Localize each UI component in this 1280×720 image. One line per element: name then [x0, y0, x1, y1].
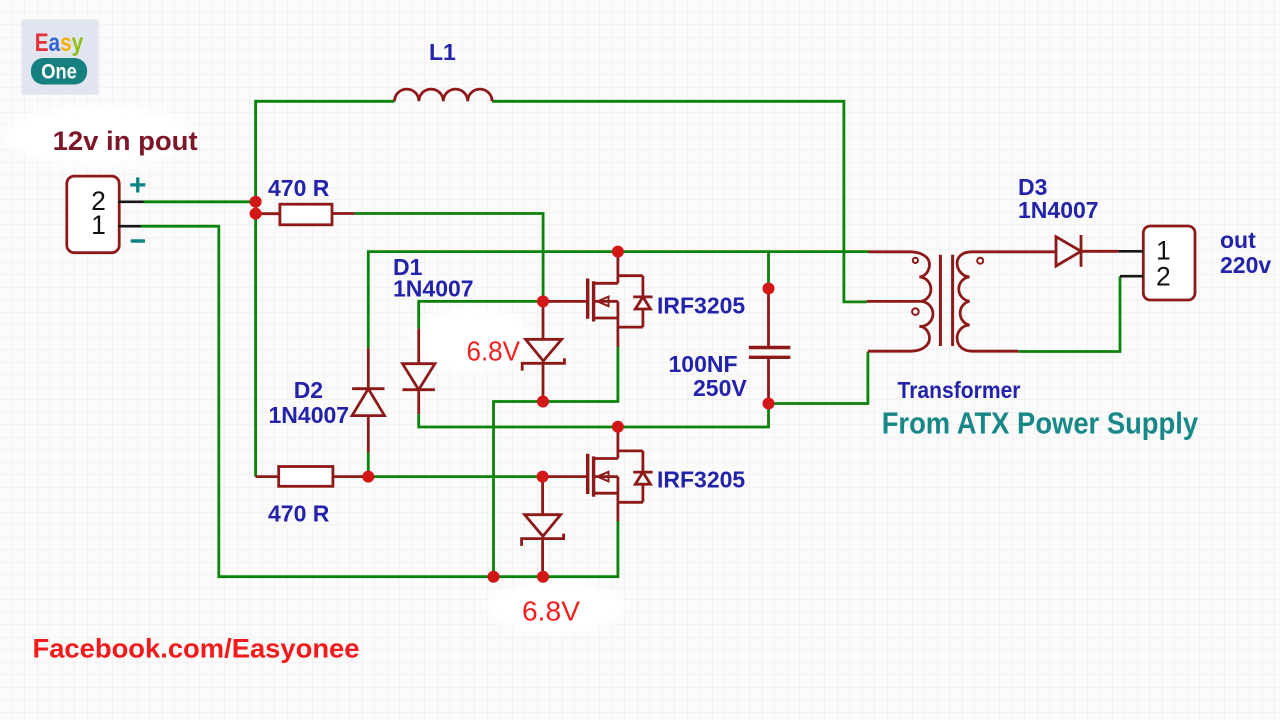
svg-text:out: out: [1220, 227, 1256, 253]
svg-text:One: One: [41, 61, 77, 84]
svg-text:1: 1: [91, 210, 106, 240]
svg-text:IRF3205: IRF3205: [657, 467, 745, 493]
svg-text:250V: 250V: [693, 375, 747, 401]
svg-text:6.8V: 6.8V: [522, 595, 580, 626]
svg-text:1N4007: 1N4007: [269, 402, 350, 428]
svg-text:+: +: [129, 169, 147, 202]
svg-text:Facebook.com/Easyonee: Facebook.com/Easyonee: [33, 634, 360, 664]
svg-text:1N4007: 1N4007: [393, 276, 474, 302]
svg-text:Easy: Easy: [35, 29, 84, 57]
svg-text:6.8V: 6.8V: [467, 336, 521, 367]
svg-text:220v: 220v: [1220, 252, 1271, 278]
svg-text:2: 2: [1156, 262, 1171, 292]
svg-text:D2: D2: [294, 377, 323, 403]
svg-text:100NF: 100NF: [669, 351, 738, 377]
svg-text:L1: L1: [429, 39, 456, 65]
svg-text:470 R: 470 R: [268, 501, 330, 527]
svg-text:Transformer: Transformer: [898, 377, 1021, 403]
svg-text:IRF3205: IRF3205: [657, 293, 745, 319]
svg-text:From ATX Power Supply: From ATX Power Supply: [882, 406, 1199, 441]
svg-text:1N4007: 1N4007: [1018, 197, 1099, 223]
svg-text:12v in pout: 12v in pout: [53, 126, 198, 156]
svg-text:470 R: 470 R: [268, 175, 330, 201]
